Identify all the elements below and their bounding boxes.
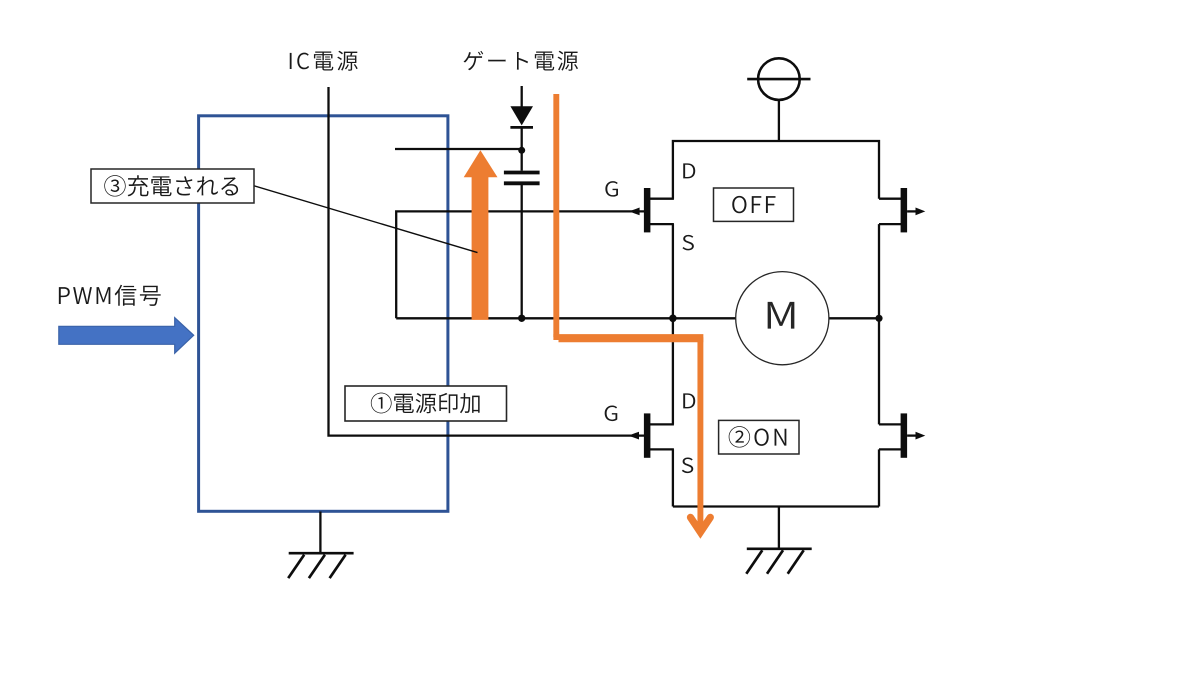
wire: high-side gate drive loop (left edge + gate wire) <box>396 211 644 318</box>
IC block U1 (blue outline box) <box>199 116 448 512</box>
leader line from ③ label to charge arrow <box>254 186 478 253</box>
pin label D (Q3 drain) <box>683 393 695 408</box>
node: capacitor/mid-bus junction <box>518 315 525 322</box>
pin label S (Q1 source) <box>682 235 693 251</box>
node: mid bus right junction <box>875 315 882 322</box>
pin label S (Q3 source) <box>682 458 693 474</box>
wire: gate-drive current path (orange elbow) with arrowhead <box>553 337 710 532</box>
wire: bottom bus <box>673 505 879 507</box>
ground (bridge ground) <box>746 507 811 574</box>
transistor Q3 (low-side MOSFET) <box>628 413 674 457</box>
transistor Q4 (right low-side MOSFET) <box>879 413 925 457</box>
callout box label ①電源印加 (power applied) <box>345 386 507 421</box>
arrow: charging current up (orange block arrow) <box>464 150 498 320</box>
motor M (circle with M) <box>736 272 829 365</box>
capacitor C1 (bootstrap capacitor) <box>504 173 540 319</box>
arrow: PWM signal input (blue block arrow) <box>59 318 194 354</box>
callout box label ③充電される (charged) <box>91 169 254 203</box>
label IC電源 (IC power supply) <box>290 51 358 71</box>
label ゲート電源 (gate power supply) <box>464 51 578 71</box>
wire: IC power rail down into IC and to low-side gate <box>329 87 645 436</box>
state label ②ON (low-side state box) <box>719 420 799 454</box>
pin label D (Q1 drain) <box>683 163 695 178</box>
wire: mid bus to Q3 drain <box>672 318 674 424</box>
node: diode/boot wire junction <box>518 147 525 154</box>
pin label G (Q3 gate) <box>605 406 618 422</box>
ground (IC block ground) <box>288 512 353 579</box>
wire: gate-supply rail (orange vertical) <box>553 94 559 337</box>
node: mid bus left junction <box>669 315 677 323</box>
power supply symbol (circle with bar) <box>747 58 810 141</box>
diode D1 (bootstrap diode) <box>510 86 533 171</box>
wire: Q2 source to mid bus (right vertical) <box>878 224 880 318</box>
wire: mid rail / motor bus <box>396 317 879 319</box>
label PWM信号 (PWM signal) <box>59 285 161 306</box>
wire: bootstrap node to diode junction (upper horizontal) <box>395 148 522 150</box>
wire: Q4 source to bottom bus (right) <box>878 449 880 506</box>
transistor Q1 (high-side MOSFET) <box>629 188 674 232</box>
pin label G (Q1 gate) <box>605 181 618 197</box>
state label OFF (high-side state box) <box>714 188 794 221</box>
wire: Q3 source to bottom bus <box>672 449 674 506</box>
wire: Q1 source to mid bus <box>672 224 674 318</box>
wire: top supply bus <box>673 141 879 199</box>
wire: mid bus to Q4 drain (right) <box>878 318 880 424</box>
transistor Q2 (right high-side MOSFET) <box>879 188 925 232</box>
